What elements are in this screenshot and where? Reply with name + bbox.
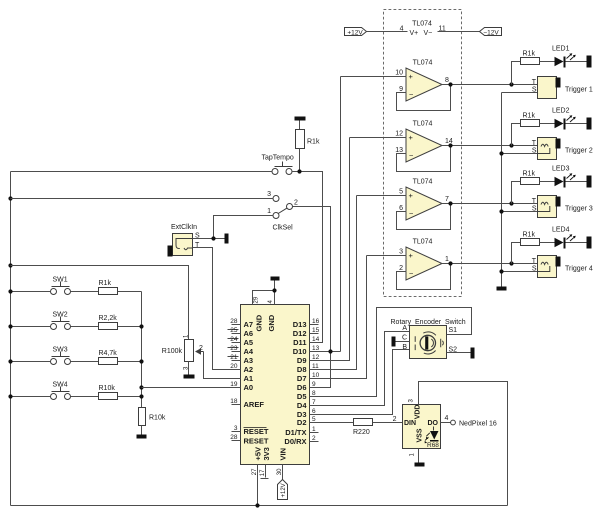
svg-text:D13: D13 [293,320,307,329]
junction ExtClkIn S / ClkSel1 [211,236,215,240]
pin 2 D0/RX [284,435,318,446]
svg-text:21: 21 [230,354,238,361]
trigger 2 jack tab [556,139,561,149]
svg-text:30: 30 [277,468,283,475]
junction +5V SW3 [8,359,12,363]
wire R1k to ladder bus [118,291,142,293]
ladder bus wire [141,292,143,408]
switch SW2 [51,312,71,330]
trigger 4 jack tab [556,257,561,267]
op-amp TL074 #3 [357,179,538,230]
svg-text:2: 2 [312,435,316,442]
wire R10k to ground [141,426,143,435]
LED3 [555,177,564,187]
pin 14 D11 [293,336,319,347]
jack Trigger 3 [502,196,593,218]
svg-text:5: 5 [312,416,316,423]
svg-text:+: + [409,133,414,142]
svg-text:−: − [409,209,414,218]
wire R1k to LED4 [540,242,555,244]
svg-text:8: 8 [312,390,316,397]
wire +5V bus to TapTempo [11,171,272,173]
svg-text:D10: D10 [293,347,307,356]
svg-text:15: 15 [312,327,320,334]
svg-text:8: 8 [445,77,449,84]
terminal bar LED4 [587,237,592,249]
svg-text:4: 4 [445,415,449,422]
pin 7 D4 [297,399,319,410]
output wire op3 [442,203,538,205]
wire LED1 to terminal [566,61,587,63]
pin 17 3V3 [260,447,271,478]
svg-text:3: 3 [267,191,271,198]
trigger 3 jack body [538,196,557,218]
wire TapTempo to D11 [293,172,323,343]
svg-text:6: 6 [399,205,403,212]
svg-text:18: 18 [230,398,238,405]
wire VSS to ground [418,449,420,463]
svg-text:TL074: TL074 [413,121,433,128]
pin 8 D5 [297,390,319,401]
svg-text:D1/TX: D1/TX [285,428,306,437]
wire branch to R1k 2 [512,124,521,146]
svg-text:24: 24 [230,336,238,343]
wire R10k to ladder bus [118,396,142,398]
trigger 4 jack body [538,256,557,278]
svg-text:T: T [532,79,537,86]
svg-text:6: 6 [312,408,316,415]
wire D9 to op2 input [310,138,350,361]
svg-text:2: 2 [393,416,397,423]
ExtClkIn jack tab [168,246,173,257]
svg-text:TL074: TL074 [413,60,433,67]
svg-text:Trigger 2: Trigger 2 [565,148,593,155]
LED branch 1 [512,46,592,85]
pin 27 +5V [252,447,263,506]
terminal bar ExtClkIn S [225,234,229,244]
wire S pin trigger4 [502,271,538,273]
wire branch to R1k 1 [512,62,521,85]
jack Trigger 1 [502,77,593,99]
svg-text:D12: D12 [293,329,307,338]
junction D10 / ClkSel2 [328,349,332,353]
svg-text:D4: D4 [297,401,307,410]
svg-text:27: 27 [252,468,258,475]
svg-text:3: 3 [399,249,403,256]
svg-text:5: 5 [399,189,403,196]
resistor R1k (TapTempo pull-up) [296,130,305,149]
svg-text:+: + [409,251,414,260]
trigger 1 jack body [538,77,557,99]
svg-text:1: 1 [445,256,449,263]
+5V left bus wire [10,172,12,506]
svg-text:R220: R220 [353,429,370,436]
wire branch to R1k 4 [512,243,521,264]
LED branch 3 [512,166,592,204]
wire D8 to op3 input [310,196,357,370]
pin 15 D12 [293,327,320,338]
LED4 emission arrows [567,235,575,241]
wire D10 to op1 input [340,77,342,352]
svg-text:V+: V+ [410,30,419,37]
+5V rail wire [11,505,508,507]
svg-text:R1k: R1k [307,139,320,146]
svg-text:S: S [532,206,537,213]
svg-text:S: S [532,87,537,94]
sleeve bus wire [501,93,503,287]
resistor R1k (LED4) [521,239,540,246]
svg-text:A0: A0 [244,383,254,392]
op-amp triangle 2 [406,129,442,162]
wire R100k pin3 to ground [188,362,190,375]
junction S trigger3 [499,209,503,213]
wire +5V bus to SW1 [11,291,51,293]
wire ClkSel 1 to ExtClkIn sleeve node [214,216,273,239]
svg-text:LED1: LED1 [552,46,570,53]
svg-text:R2,2k: R2,2k [99,315,118,322]
wire LED2 to terminal [566,123,587,125]
wire D7 to op4 input [310,256,367,379]
resistor R4,7k (SW3) [99,358,118,365]
svg-text:−12V: −12V [483,30,499,37]
svg-text:T: T [532,198,537,205]
svg-text:B: B [402,344,407,351]
switch SW3 [51,347,71,365]
svg-text:−: − [409,151,414,160]
svg-text:25: 25 [230,327,238,334]
resistor R220 [354,419,373,426]
wire pin29 GND [253,291,275,305]
wire D5 to encoder S1 [310,308,472,397]
resistor R10k (pull-down) [139,408,146,426]
LED3 emission arrows [567,174,575,180]
svg-text:LED3: LED3 [552,166,570,173]
svg-text:T: T [532,140,537,147]
wire S pin trigger3 [502,211,538,213]
svg-text:VDD: VDD [415,405,422,420]
wire R2,2k to ladder bus [118,326,142,328]
switch SW1 [51,277,71,295]
pin 19 A0 [230,381,253,392]
svg-text:R4,7k: R4,7k [99,350,118,357]
encoder knob symbol [420,335,435,350]
wire to op1 + input [341,76,407,78]
junction +5V SW2 [8,324,12,328]
wire ExtClkIn S to terminal [193,238,225,240]
R100k wiper arrow [200,351,204,353]
wire LED3 to terminal [566,181,587,183]
svg-text:1: 1 [267,208,271,215]
wire D11 stub to TapTempo net [310,342,323,344]
pin 21 A3 [228,354,254,365]
svg-text:C: C [402,335,407,342]
pin 10 D7 [297,372,320,383]
svg-text:D9: D9 [297,356,307,365]
svg-text:28: 28 [230,318,238,325]
wire S pin trigger2 [502,153,538,155]
wire LED4 to terminal [566,242,587,244]
op-amp TL074 #2 [350,121,538,172]
svg-text:1: 1 [312,426,316,433]
op-amp TL074 #4 [367,239,538,290]
svg-text:12: 12 [312,354,320,361]
svg-text:14: 14 [312,336,320,343]
LED branch 2 [512,108,592,146]
svg-text:+12V: +12V [347,30,363,37]
pin 12 D9 [297,354,320,365]
pin 20 A2 [230,363,253,374]
svg-text:LED4: LED4 [552,227,570,234]
wire D3 to encoder B [310,350,410,415]
svg-text:ExtClkIn: ExtClkIn [171,224,197,231]
resistor R10k (SW4) [99,393,118,400]
wire ladder to A0 [142,387,241,389]
junction op4 output branch [509,261,513,265]
wire bar to R1k [299,121,301,130]
wire +12V to V+ / V- to -12V [367,31,480,33]
svg-text:RESET: RESET [244,427,269,436]
junction S trigger4 [499,269,503,273]
ExtClkIn jack contacts [176,239,193,250]
svg-text:S: S [532,266,537,273]
svg-text:LED2: LED2 [552,108,570,115]
wire to op4 + input [367,255,407,257]
svg-text:19: 19 [230,381,238,388]
ground (R100k) [184,375,195,379]
wire VIN to +12V flag [282,465,284,480]
svg-text:D2: D2 [297,418,307,427]
pin 1 D1/TX [285,426,318,437]
wire R4,7k to ladder bus [118,361,142,363]
svg-text:R10k: R10k [149,415,166,422]
svg-text:D0/RX: D0/RX [284,437,306,446]
wire SW4 to R10k [71,396,99,398]
wire ClkSel 2 to D10/D6 [293,207,331,388]
svg-text:16: 16 [312,318,320,325]
terminal bar LED2 [587,118,592,130]
svg-text:D5: D5 [297,392,307,401]
svg-text:A1: A1 [244,374,254,383]
junction ladder SW3 [139,359,143,363]
wire pin4 GND [274,281,276,305]
svg-text:A4: A4 [244,347,254,356]
svg-text:A7: A7 [244,320,254,329]
output wire op2 [442,145,538,147]
svg-text:20: 20 [230,363,238,370]
op-amp TL074 #1 [341,60,538,111]
rotary encoder Rotary_Encoder_Switch [391,319,466,359]
ground (R10k) [137,435,147,439]
svg-text:R1k: R1k [523,232,536,239]
feedback loop op1 [397,85,451,111]
wire S pin trigger1 [502,92,538,94]
svg-text:A5: A5 [244,338,254,347]
junction ladder SW4 [139,394,143,398]
svg-text:TL074: TL074 [413,239,433,246]
svg-text:28: 28 [230,434,238,441]
jack Trigger 4 [502,256,593,278]
junction op1 feedback [448,82,452,86]
svg-text:A6: A6 [244,329,254,338]
resistor R1k (LED3) [521,178,540,185]
wire R1k to LED2 [540,123,555,125]
op-amp power pins label block V+/V- [408,27,438,37]
wire R220 to DIN [373,422,403,424]
pin 29 GND [253,291,275,332]
svg-text:10: 10 [395,70,403,77]
svg-text:7: 7 [312,399,316,406]
junction TapTempo/R1k [297,169,301,173]
microcontroller module (Arduino Nano) [241,305,310,465]
LED1 emission arrows [567,54,575,60]
wire +5V bus to SW2 [11,326,51,328]
feedback loop op3 [397,204,451,230]
ground bar (MCU GND) [271,277,280,281]
svg-text:DO: DO [428,420,439,427]
svg-text:13: 13 [395,147,403,154]
output wire op4 [442,263,538,265]
junction op2 feedback [448,143,452,147]
wire to op2 + input [350,137,407,139]
wire branch to R1k 3 [512,182,521,204]
pin 25 A6 [228,327,254,338]
svg-text:7: 7 [445,196,449,203]
pin 11 D8 [297,363,319,374]
wire +5V bus to SW3 [11,361,51,363]
junction S trigger2 [499,151,503,155]
wire D4 to encoder A [310,332,410,406]
junction +5V SW4 [8,394,12,398]
svg-text:9: 9 [399,86,403,93]
pin 28 A7 [230,318,253,329]
LED2 [555,119,564,129]
op-amp triangle 1 [406,68,442,101]
stub 3V3 [265,465,267,478]
wire +5V pin to rail [257,465,259,506]
wire R1k to LED3 [540,181,555,183]
pin 24 A5 [228,336,254,347]
junction +5V SW1 [8,289,12,293]
svg-text:11: 11 [312,363,319,370]
pin 6 D3 [297,408,319,419]
svg-text:TL074: TL074 [412,21,432,28]
svg-text:+: + [409,191,414,200]
wire D2 to R220 [310,422,354,424]
wire SW1 to R1k [71,291,99,293]
+12V supply flag [345,28,367,36]
wire DO output [441,422,451,424]
wire wiper to A1 [204,352,241,379]
-12V supply flag [480,28,502,36]
ground (NeoPixel VSS) [415,463,425,467]
terminal bar encoder C [392,337,396,347]
svg-text:3V3: 3V3 [262,447,271,460]
jack Trigger 2 [502,138,593,160]
switch TapTempo [262,155,294,175]
svg-text:−: − [409,90,414,99]
trigger 3 jack tab [556,197,561,207]
svg-text:R1k: R1k [523,171,536,178]
pin - A1 [232,374,254,383]
resistor R1k (SW1) [99,288,118,295]
wire +5V bus to SW4 [11,396,51,398]
+12V supply flag (VIN) [278,480,288,500]
pin 5 D2 [297,416,319,427]
NC tick pin 17 [261,478,269,480]
svg-text:ClkSel: ClkSel [273,225,294,232]
svg-text:D7: D7 [297,374,307,383]
svg-text:R100k: R100k [162,348,183,355]
svg-text:2: 2 [294,200,298,207]
pin 16 D13 [293,318,320,329]
svg-text:DIN: DIN [404,420,416,427]
svg-text:12: 12 [395,131,403,138]
svg-text:VIN: VIN [279,448,288,461]
svg-text:Trigger 1: Trigger 1 [565,87,593,94]
trigger 2 jack contacts [538,144,550,153]
wire encoder S2 to terminal [447,352,471,354]
svg-text:T: T [532,258,537,265]
svg-text:17: 17 [260,469,266,476]
jack ExtClkIn [168,224,201,257]
junction +5V rail / MCU pin 27 [255,503,259,507]
pin 4 GND [267,281,276,332]
trigger 4 jack contacts [538,262,550,271]
wire R1k to LED1 [540,61,555,63]
switch ClkSel [267,191,298,232]
junction op4 feedback [448,261,452,265]
trigger 1 jack tab [556,78,561,88]
svg-text:10: 10 [312,372,320,379]
resistor R2,2k (SW2) [99,323,118,330]
svg-text:D8: D8 [297,365,307,374]
svg-text:R1k: R1k [99,280,112,287]
wire to op3 + input [357,195,407,197]
svg-text:R1k: R1k [523,113,536,120]
svg-text:29: 29 [254,296,260,303]
wire +5V to VDD [419,382,508,506]
svg-text:Trigger 3: Trigger 3 [565,206,593,213]
pin 18 AREF [230,398,264,409]
wire +5V to R100k pin1 [11,266,189,340]
potentiometer R100k [162,334,204,370]
output wire op1 [442,84,538,86]
svg-text:+: + [409,72,414,81]
svg-text:GND: GND [267,314,276,331]
pin 28 RESET [230,434,269,446]
junction +5V ClkSel3 [8,196,12,200]
svg-text:RESET: RESET [244,437,269,446]
svg-text:23: 23 [230,345,238,352]
switch SW4 [51,382,71,400]
svg-text:D6: D6 [297,383,307,392]
pin 30 VIN [277,448,288,480]
wire D10 row [310,351,341,353]
terminal bar LED1 [587,56,592,68]
NeoPixel module [403,405,441,450]
svg-text:A3: A3 [244,356,254,365]
svg-text:−: − [409,269,414,278]
svg-text:R1k: R1k [523,51,536,58]
TL074 quad op-amp dashed outline box [384,10,462,297]
LED1 [555,57,564,67]
junction +5V R100k [8,263,12,267]
LED2 emission arrows [567,116,575,122]
terminal bar encoder S2 [471,348,475,359]
wire +5V to ClkSel 3 [11,198,273,200]
svg-text:11: 11 [439,26,446,33]
wire ExtClkIn T to A2 [193,248,241,370]
